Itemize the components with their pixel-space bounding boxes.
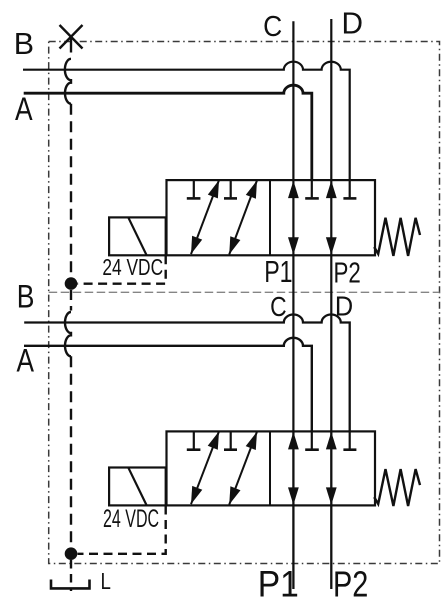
solenoid S2 (24 VDC coil) of valve V2 (109, 468, 166, 506)
svg-text:B: B (14, 26, 34, 61)
solenoid S1 (24 VDC coil) of valve V1 (109, 217, 166, 255)
junction dot J1 (valve V1 drain joins line L) (65, 277, 78, 290)
wire B (section 2) with hops over C and D, turns down into valve V2 (24, 315, 350, 432)
valve V1 right box flow arrow (straight through at x=331.3) (326, 181, 337, 199)
return spring of valve V2 (374, 469, 420, 506)
valve V2 left box blocked port T2 (230, 431, 232, 448)
svg-text:24 VDC: 24 VDC (102, 254, 163, 280)
svg-text:24 VDC: 24 VDC (103, 506, 159, 533)
svg-text:C: C (270, 291, 287, 322)
valve V1 body (4/2 directional valve, two position boxes) (167, 180, 376, 255)
drain line L dashed segment (section 1) (70, 104, 72, 278)
valve V1 right box blocked port T4 (349, 180, 351, 197)
wire D (vertical, from top through valve V1 down to valve V2 top = P2 of V1) (330, 19, 332, 431)
valve V2 left box blocked port T1 (193, 431, 195, 448)
valve V1 left box blocked port T2 (230, 180, 232, 197)
svg-text:A: A (15, 91, 33, 127)
svg-text:P1: P1 (258, 563, 299, 600)
wire B (section 1) with hops over C and D, turns down into valve V1 (23, 62, 350, 180)
svg-text:A: A (17, 342, 35, 379)
valve V1 right box blocked port T3 (311, 180, 313, 197)
drain line L hops over wires B and A (section 1) (65, 59, 71, 104)
wire P2 (through valve V2 to bottom edge) (330, 431, 332, 589)
wire P1 (through valve V2 to bottom edge) (292, 431, 294, 589)
wire A (section 2) with hop over C, turns down into valve V2 (24, 338, 312, 432)
svg-text:B: B (17, 278, 35, 315)
valve V2 right box flow arrow (straight through at x=331.3) (326, 432, 337, 450)
valve manifold enclosure border (dash-dot) (49, 42, 440, 564)
junction dot J2 (valve V2 drain joins line L) (65, 547, 78, 560)
valve V1 right box flow arrow (straight through at x=293.4) (288, 181, 299, 199)
valve V2 right box blocked port T3 (311, 431, 313, 448)
drain line L dashed segment (section 2 to junction J2) (70, 356, 72, 547)
valve V2 left box crossed flow arrow (191, 431, 219, 504)
svg-text:P2: P2 (334, 258, 361, 290)
valve V2 body (4/2 directional valve, two position boxes) (167, 431, 376, 505)
valve V1 left box blocked port T1 (193, 180, 195, 197)
svg-text:D: D (342, 7, 364, 41)
drain wire from valve V1 solenoid area to junction J1 (dashed) (78, 255, 166, 283)
valve V1 left box crossed flow arrow (229, 180, 257, 254)
svg-text:P1: P1 (264, 255, 292, 289)
drain line L outlet segment to tank (dashed) (70, 560, 72, 591)
drain wire from valve V2 solenoid area to junction J2 (dashed) (78, 506, 166, 554)
wire C (vertical, from top through valve V1 down to valve V2 top = P1 of V1) (292, 21, 294, 431)
drain line L dashed segment (junction J1 to section 2 hops) (70, 290, 72, 311)
section divider line (dashed) (49, 291, 440, 293)
svg-text:L: L (101, 568, 111, 594)
valve V2 right box flow arrow (straight through at x=293.4) (288, 432, 299, 450)
return spring of valve V1 (374, 218, 420, 256)
valve V2 right box blocked port T4 (349, 431, 351, 448)
tank / reservoir symbol (drain line L) (51, 580, 90, 589)
valve V2 left box crossed flow arrow (229, 432, 257, 505)
valve V1 left box crossed flow arrow (191, 180, 219, 254)
plug symbol X (top of drain line L) (60, 25, 83, 53)
wire A (section 1) with hop over C, turns down into valve V1 (24, 85, 312, 180)
svg-text:C: C (263, 11, 282, 43)
drain line L hops over wires B and A (section 2) (65, 312, 71, 356)
svg-text:P2: P2 (333, 564, 368, 600)
